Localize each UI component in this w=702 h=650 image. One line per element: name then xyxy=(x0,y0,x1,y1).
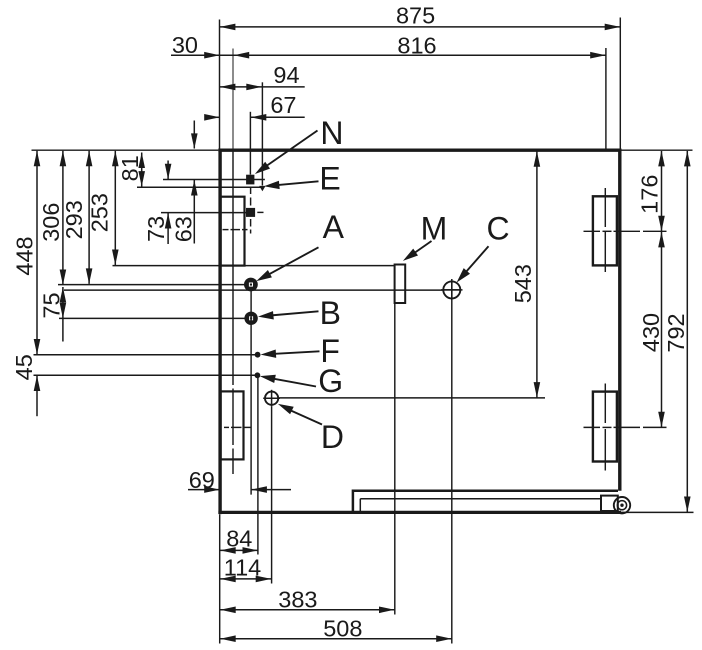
roller wheel xyxy=(614,497,630,513)
reference row line to N xyxy=(163,179,265,181)
cabinet right edge xyxy=(618,149,621,491)
connection point B xyxy=(244,312,257,325)
svg-text:73: 73 xyxy=(143,216,169,242)
reference row line to C xyxy=(64,289,444,291)
leader to G xyxy=(272,378,316,386)
upper-left niche rectangle xyxy=(221,197,245,266)
svg-text:67: 67 xyxy=(270,92,296,118)
floor line thin extension to 792 dimension xyxy=(621,511,694,513)
svg-text:D: D xyxy=(321,419,344,455)
connection point F (dot) xyxy=(255,352,261,358)
leader to B xyxy=(270,311,319,315)
dimension 63 xyxy=(193,121,195,149)
reference row line to B xyxy=(59,317,245,319)
svg-text:293: 293 xyxy=(61,200,87,239)
left edge extension above xyxy=(219,20,221,149)
connection point A xyxy=(244,278,258,292)
svg-text:30: 30 xyxy=(172,32,198,58)
svg-text:816: 816 xyxy=(397,32,436,58)
leader to N xyxy=(262,131,318,170)
N column extension xyxy=(249,112,251,175)
M conduit rectangle xyxy=(395,265,406,304)
svg-text:75: 75 xyxy=(38,292,64,318)
cabinet bottom / floor line xyxy=(218,511,621,514)
E column extension xyxy=(261,82,263,185)
svg-text:306: 306 xyxy=(38,203,64,242)
connection point D (circle with cross) xyxy=(265,392,278,405)
dimension 73 xyxy=(167,161,169,180)
F-G column line xyxy=(257,378,259,555)
upper niche cross xyxy=(223,229,229,231)
svg-text:84: 84 xyxy=(226,525,252,551)
dimension 383 xyxy=(220,609,395,611)
dimension 253 xyxy=(114,151,116,265)
leader to A xyxy=(266,247,319,276)
svg-text:176: 176 xyxy=(636,175,662,214)
svg-text:C: C xyxy=(487,211,510,247)
right wall bracket upper xyxy=(593,196,617,265)
dimension 543 xyxy=(536,151,538,398)
svg-text:448: 448 xyxy=(12,236,38,275)
svg-text:383: 383 xyxy=(278,587,317,613)
reference row line 253 to M xyxy=(113,265,395,267)
lower-left niche rectangle xyxy=(221,391,244,459)
svg-text:430: 430 xyxy=(638,313,664,352)
dimension 69 xyxy=(188,489,220,491)
vertical centerline x=233 (30 mm offset) xyxy=(232,49,234,151)
svg-text:114: 114 xyxy=(224,554,261,580)
reference row line to E xyxy=(137,186,262,188)
left edge extension below xyxy=(219,514,221,643)
bracket centerline vertical lower xyxy=(604,384,606,424)
dimension 176 xyxy=(661,151,663,231)
bracket centerline horizontal upper xyxy=(584,230,601,232)
connection point G (dot) xyxy=(255,372,261,378)
dashed centerline through N squares xyxy=(250,187,252,195)
top edge extension right xyxy=(622,149,693,151)
svg-text:69: 69 xyxy=(189,467,215,493)
C column line xyxy=(451,299,453,644)
leader to E xyxy=(276,181,319,185)
svg-text:543: 543 xyxy=(510,264,536,303)
svg-text:508: 508 xyxy=(323,615,362,641)
dimension 45 xyxy=(36,375,38,416)
cabinet top edge xyxy=(218,148,621,151)
dimension 81 xyxy=(141,153,143,187)
reference row line to F xyxy=(34,354,256,356)
dimension 306 xyxy=(62,151,64,285)
D column line xyxy=(271,407,273,584)
dimension 84 xyxy=(220,549,258,551)
dimension 792 xyxy=(686,151,688,512)
reference row line to G xyxy=(34,374,256,376)
leader to M xyxy=(412,241,432,255)
svg-text:94: 94 xyxy=(273,62,299,88)
leader to F xyxy=(273,351,320,354)
reference row line to A xyxy=(58,284,249,286)
svg-text:81: 81 xyxy=(117,155,143,181)
svg-text:E: E xyxy=(319,160,340,196)
svg-text:M: M xyxy=(421,211,448,247)
connection point below N (solid square) xyxy=(246,208,255,217)
connection point C (circle with cross) xyxy=(441,289,463,291)
svg-text:45: 45 xyxy=(11,354,37,380)
roller housing xyxy=(601,496,618,511)
dimension 508 xyxy=(220,638,452,640)
dimension 875 xyxy=(220,26,621,28)
svg-text:N: N xyxy=(320,115,343,151)
connection point E marker xyxy=(259,186,265,191)
816 right extension line xyxy=(605,48,607,149)
plinth panel xyxy=(360,498,601,500)
connection point N (solid square) xyxy=(246,175,254,185)
svg-text:253: 253 xyxy=(87,193,113,232)
A-B column line xyxy=(250,290,252,495)
bracket centerline horizontal lower xyxy=(584,426,601,428)
875 right extension line xyxy=(619,18,621,149)
M column line xyxy=(394,303,396,614)
leader to C xyxy=(464,246,489,274)
svg-text:G: G xyxy=(318,363,343,399)
right wall bracket lower xyxy=(593,392,617,462)
dimension 94 xyxy=(220,86,305,88)
svg-text:A: A xyxy=(323,209,345,245)
dimension 448 xyxy=(36,151,38,355)
plinth recess top xyxy=(353,491,618,512)
svg-text:B: B xyxy=(320,295,341,331)
dimension 293 xyxy=(88,151,90,284)
top edge extension left xyxy=(32,149,219,151)
lower niche cross xyxy=(224,426,229,428)
reference row line to lower square xyxy=(161,212,246,214)
dimension 67 xyxy=(205,116,220,118)
dimension 114 xyxy=(220,578,272,580)
dimension 75 xyxy=(62,287,64,342)
svg-text:792: 792 xyxy=(663,313,689,352)
svg-text:875: 875 xyxy=(396,3,435,29)
bracket centerline vertical upper xyxy=(604,188,606,227)
svg-text:63: 63 xyxy=(171,216,197,242)
dimension 30 / 816 shared line xyxy=(171,54,606,56)
cabinet left edge xyxy=(218,149,221,515)
reference row line D to 543 xyxy=(278,397,545,399)
dimension 430 xyxy=(661,232,663,428)
leader to D xyxy=(288,409,322,424)
